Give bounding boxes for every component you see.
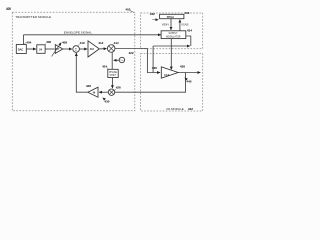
svg-text:436: 436: [152, 66, 157, 70]
svg-text:Σ: Σ: [75, 47, 77, 51]
svg-text:412: 412: [98, 41, 103, 45]
svg-text:416: 416: [184, 11, 189, 15]
wire output tap down: [115, 73, 186, 93]
leader 402: [130, 11, 134, 13]
wire phase to fb mixer: [111, 78, 113, 89]
fb mixer 426: [108, 89, 114, 95]
svg-text:400: 400: [6, 7, 11, 11]
wire envelope: [24, 34, 161, 36]
svg-text:DAC: DAC: [18, 47, 24, 51]
vga amplifier 408: [55, 45, 63, 54]
wire fpga down arrow: [170, 19, 172, 30]
wire lo to chain: [114, 59, 120, 61]
fb amplifier 428: [88, 87, 98, 97]
transmitter module dashed box: [12, 12, 135, 111]
svg-text:416: 416: [90, 48, 95, 51]
wire envelope riser: [23, 35, 25, 45]
svg-text:PHASE: PHASE: [109, 71, 117, 74]
svg-text:VSNS: VSNS: [181, 23, 189, 26]
svg-text:PA MODULE: PA MODULE: [167, 107, 184, 111]
svg-text:SHIFT: SHIFT: [110, 75, 117, 77]
svg-text:VENV: VENV: [162, 23, 170, 26]
block 24 406: [37, 45, 45, 54]
wire mixer to pa: [115, 49, 160, 73]
wire sense crossover: [153, 45, 190, 47]
svg-text:FPGA: FPGA: [167, 15, 174, 19]
supply modulator box 434: [161, 31, 186, 39]
svg-text:430: 430: [104, 100, 109, 104]
svg-text:440: 440: [186, 80, 191, 84]
svg-text:410: 410: [80, 41, 85, 45]
pa module dashed box: [141, 54, 203, 112]
svg-text:434: 434: [187, 29, 192, 33]
svg-text:406: 406: [46, 40, 51, 44]
wire supply up arrow: [179, 20, 181, 31]
svg-text:442: 442: [188, 107, 193, 111]
svg-text:MODULATOR: MODULATOR: [166, 35, 181, 38]
svg-text:24: 24: [39, 48, 42, 52]
wire mixer down to phase: [111, 52, 113, 69]
svg-text:408: 408: [62, 40, 67, 44]
svg-text:422: 422: [129, 51, 134, 55]
svg-text:444: 444: [164, 73, 170, 77]
svg-text:432: 432: [150, 12, 155, 16]
vga gain arrow: [52, 43, 62, 57]
wire dac to lpf: [26, 48, 36, 50]
block DAC 404: [16, 45, 26, 54]
fpga box 432: [160, 14, 184, 18]
svg-text:426: 426: [116, 85, 121, 89]
svg-text:424: 424: [102, 64, 107, 68]
supply/fpga dashed box: [141, 13, 203, 49]
mixer 414: [107, 45, 115, 53]
amplifier 412: [88, 41, 99, 57]
svg-text:438: 438: [180, 64, 185, 68]
wire fb amp to summer: [76, 53, 88, 92]
svg-text:SUPPLY: SUPPLY: [169, 33, 178, 35]
svg-text:414: 414: [114, 41, 119, 45]
svg-text:402: 402: [125, 7, 130, 11]
svg-text:TRANSMITTER MODULE: TRANSMITTER MODULE: [15, 15, 51, 19]
wire supply to pa: [170, 39, 172, 70]
wire summer to amp: [79, 48, 87, 50]
wire lpf to vga: [45, 48, 55, 50]
wire sense drop to pa input: [152, 46, 154, 73]
wire amp to mixer: [99, 48, 106, 50]
wire supply sense hook: [186, 36, 191, 46]
summer node 410: [73, 46, 80, 53]
svg-text:ENVELOPE SIGNAL: ENVELOPE SIGNAL: [64, 30, 92, 34]
phase shift box 424: [108, 69, 118, 77]
wire pa output: [178, 72, 200, 74]
lo oscillator 422: [119, 57, 124, 62]
wire fb mixer to fb amp: [99, 91, 108, 93]
wire vga to summer: [63, 48, 72, 50]
svg-text:404: 404: [26, 40, 31, 44]
svg-text:428: 428: [86, 84, 91, 88]
pa amplifier 438: [161, 67, 178, 78]
